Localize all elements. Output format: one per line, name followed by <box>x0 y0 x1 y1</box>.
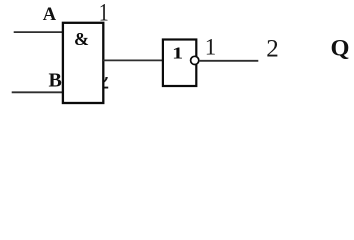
svg-text:Q: Q <box>331 36 350 61</box>
wire inverter output <box>199 60 258 62</box>
svg-text:2: 2 <box>266 36 279 63</box>
svg-text:1: 1 <box>205 35 217 60</box>
inverter U2 box (IEC symbol) <box>163 40 196 87</box>
inversion bubble on inverter output <box>191 56 199 64</box>
AND gate U1 box (IEC symbol) <box>63 23 103 103</box>
svg-text:1: 1 <box>172 43 183 62</box>
wire B (input B to AND gate) <box>12 91 64 93</box>
svg-text:A: A <box>43 5 57 25</box>
svg-text:B: B <box>49 70 62 92</box>
svg-text:&: & <box>74 29 89 49</box>
wire AND output to inverter input <box>103 59 163 61</box>
wire A (input A to AND gate) <box>14 31 64 33</box>
